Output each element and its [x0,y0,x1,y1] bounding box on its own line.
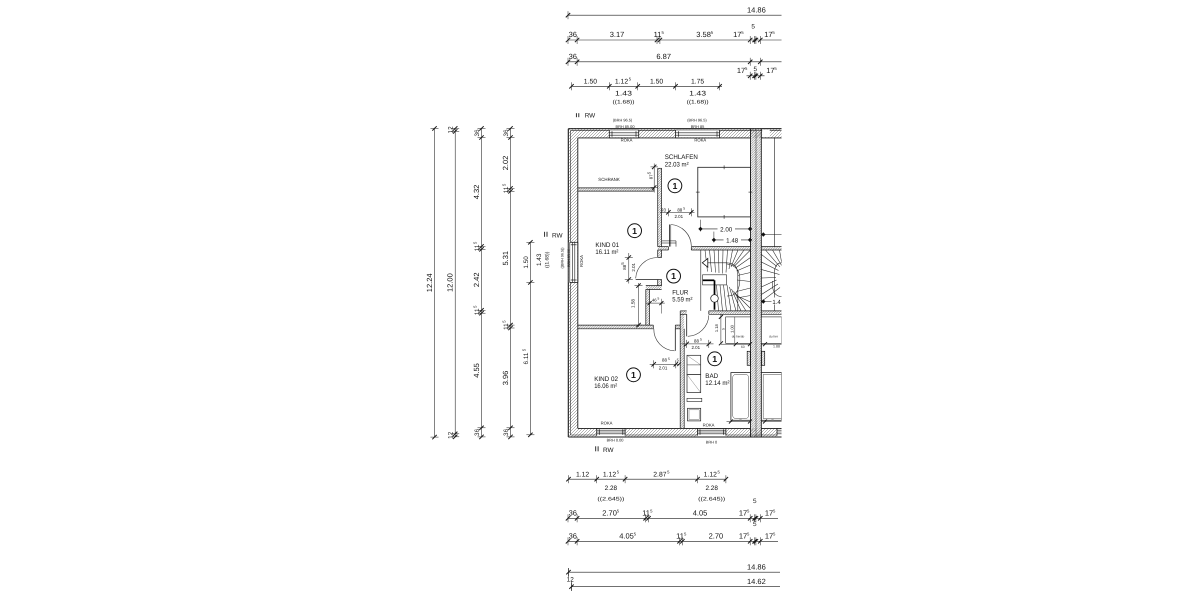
svg-text:6.11: 6.11 [523,352,530,364]
dim chain left rooms-b [510,128,512,437]
svg-text:1.43: 1.43 [689,91,706,98]
svg-text:17: 17 [765,509,773,518]
svg-text:16.11 m²: 16.11 m² [595,249,619,256]
dim 2.00 SCHLAFEN [700,220,702,232]
svg-text:1.18: 1.18 [714,324,719,333]
svg-text:((1.68)): ((1.68)) [687,100,709,106]
closet dim 87.5 [653,164,655,193]
dim chain bottom lineA windows [569,478,726,480]
svg-text:17: 17 [733,30,741,39]
dim chain left window 1.50/6.115 [529,242,531,434]
washbasin BAD [687,355,701,374]
svg-text:5: 5 [668,357,670,361]
dim 1.48 SCHLAFEN [713,232,715,243]
interior wall KIND01/FLUR vertical [658,250,662,258]
interior wall unit2 stair-bottom mirrored [761,311,781,314]
dim chain top line1 14.86 [568,14,782,16]
svg-text:2.70: 2.70 [709,532,724,541]
window bottom-2 BAD [698,429,726,437]
svg-text:12.00: 12.00 [446,273,455,292]
window top-2 SCHLAFEN [676,129,720,137]
svg-text:5: 5 [753,498,757,505]
stair walk line + arrow unit1 [708,263,738,311]
svg-text:KIND 02: KIND 02 [594,376,618,383]
circle 1 KIND02 [627,368,641,382]
svg-text:2.01: 2.01 [631,262,636,271]
wc BAD [688,408,701,421]
window top-1 SCHLAFEN [609,129,638,137]
svg-text:11: 11 [474,244,481,251]
svg-text:1: 1 [672,181,677,191]
dim chain bottom lineE 14.62 [572,586,781,588]
svg-text:3.96: 3.96 [501,371,510,386]
svg-text:du herab: du herab [732,334,745,338]
svg-text:2.28: 2.28 [605,485,618,492]
svg-text:36: 36 [503,129,510,137]
svg-text:SCHLAFEN: SCHLAFEN [665,154,698,161]
dim unit2 stairs 1.4x [761,301,781,303]
dim door KIND02 88.5/2.01 [650,363,679,365]
dim chain bottom lineC [568,540,778,542]
svg-text:1.58: 1.58 [631,299,636,308]
dim ticks tub bottom unit1 [727,421,751,423]
svg-text:36: 36 [503,428,510,436]
svg-text:5: 5 [754,66,758,73]
dim door KIND01 88.5/2.01 rotated [628,253,630,284]
svg-text:3.58: 3.58 [696,30,711,39]
svg-text:(BRH 96.5): (BRH 96.5) [613,117,633,122]
svg-text:1: 1 [632,226,637,236]
dim chain bottom lineD 14.86 [569,571,781,573]
dim chain top line4 windows [572,85,723,87]
label RW top [575,113,577,117]
door SCHLAFEN [668,225,670,247]
svg-text:17: 17 [764,30,772,39]
svg-text:BRH 0.00: BRH 0.00 [607,438,625,443]
svg-text:11: 11 [676,532,684,541]
svg-text:14.86: 14.86 [747,562,766,571]
svg-text:ROKA: ROKA [601,421,613,426]
interior wall closet vertical [658,168,662,246]
stairs unit2 mirrored (clipped) [761,255,777,267]
svg-text:36: 36 [569,52,577,61]
svg-text:RW: RW [603,447,614,454]
circle 1 FLUR [667,269,681,283]
svg-text:1.50: 1.50 [650,79,663,86]
svg-text:((BRH 96.5)): ((BRH 96.5)) [561,248,565,269]
svg-text:88: 88 [677,207,682,212]
stair newel circle [711,295,719,303]
interior wall SCHLAFEN-door / stair top [658,247,669,250]
dim chain left 12.00 [454,128,456,436]
svg-text:ROKA: ROKA [694,138,706,143]
stair handrail curve unit1 [727,264,740,296]
svg-text:1.12: 1.12 [615,79,628,86]
dim door BAD 88.5/2.01 [682,343,714,345]
svg-text:RW: RW [552,232,563,239]
svg-text:12: 12 [567,576,575,583]
svg-text:BRH 0: BRH 0 [706,439,718,444]
interior wall KIND01/KIND02 [578,325,654,329]
svg-text:12.24: 12.24 [425,273,434,292]
interior wall KIND02/BAD vertical [680,314,684,428]
interior wall FLUR/BAD horizontal [680,311,687,314]
interior wall SCHRANK/KIND01 [578,188,654,191]
svg-text:BRH 85: BRH 85 [691,124,705,129]
svg-text:4.05: 4.05 [693,509,708,518]
svg-text:5: 5 [683,207,685,211]
svg-text:12: 12 [448,431,455,439]
svg-text:1.75: 1.75 [691,79,704,86]
svg-text:4.32: 4.32 [472,185,481,200]
dim door SCHLAFEN 93/88.5/2.01 [660,211,695,213]
svg-text:17: 17 [739,532,747,541]
svg-text:2.42: 2.42 [472,272,481,287]
svg-text:36: 36 [569,30,577,39]
svg-text:17: 17 [739,509,747,518]
svg-text:1: 1 [631,370,636,380]
door BAD [686,314,688,336]
svg-text:2.02: 2.02 [501,156,510,171]
door KIND02 [674,329,676,351]
svg-text:1.50: 1.50 [584,79,597,86]
svg-text:22.03 m²: 22.03 m² [665,161,690,168]
svg-text:5.59 m²: 5.59 m² [672,297,693,304]
svg-text:36: 36 [569,509,577,518]
svg-text:FLUR: FLUR [672,290,688,297]
svg-text:ROKA: ROKA [703,423,715,428]
svg-text:6.87: 6.87 [656,52,671,61]
svg-text:46: 46 [652,297,657,302]
svg-text:ROKA: ROKA [621,138,633,143]
svg-text:1: 1 [712,354,717,364]
svg-text:88: 88 [694,338,699,343]
svg-text:1: 1 [671,271,676,281]
interior wall FLUR jog vertical [646,289,650,325]
outer wall top (hatched) [568,129,781,138]
svg-text:1.12: 1.12 [704,471,717,478]
svg-text:(BRH 96.5): (BRH 96.5) [687,117,707,122]
bathtub BAD unit1 [731,373,751,421]
svg-text:((1.68)): ((1.68)) [613,100,635,106]
svg-text:RW: RW [585,112,596,119]
svg-text:12.14 m²: 12.14 m² [705,380,730,387]
svg-text:5: 5 [722,328,726,330]
interior wall unit2 stair-top mirrored [761,247,781,250]
svg-text:11: 11 [474,308,481,315]
label RW bottom [595,446,597,451]
outer wall left (hatched) [568,129,578,437]
svg-text:1.88: 1.88 [773,344,780,348]
window bottom-1 KIND02 [597,429,625,437]
svg-text:36: 36 [569,532,577,541]
shelf BAD [687,398,702,401]
top wall chimney gap unit2 [762,129,770,137]
svg-text:5: 5 [658,297,660,301]
svg-text:2.01: 2.01 [675,214,684,219]
duct box unit2 mirrored [761,317,781,343]
svg-text:93: 93 [661,208,666,213]
radiator unit1 [747,351,750,365]
dim nook 46.5 [646,302,665,304]
svg-text:11: 11 [654,30,662,39]
label RW left [544,232,546,237]
svg-text:2.87: 2.87 [653,471,666,478]
svg-text:1.50: 1.50 [523,256,530,269]
dim ticks tub bottom unit2 [762,421,782,423]
svg-text:4.05: 4.05 [619,532,634,541]
party wall (double, hatched) [751,129,762,437]
svg-text:1.12: 1.12 [603,471,616,478]
dim 1.58 KIND01 rotated [638,283,640,327]
svg-text:36: 36 [474,129,481,137]
svg-text:17: 17 [765,532,773,541]
svg-text:1.43: 1.43 [615,91,632,98]
interior wall KIND02-door jamb [675,325,680,329]
svg-text:11: 11 [642,509,650,518]
dim chain left 12.24 [434,128,436,437]
stair treads unit1 lower flight [717,285,719,311]
svg-text:SCHRANK: SCHRANK [598,177,620,182]
svg-text:BRH 85.00: BRH 85.00 [615,124,635,129]
circle 1 BAD [708,352,722,366]
svg-text:17: 17 [766,66,774,75]
svg-text:5: 5 [700,338,702,342]
svg-text:((2.645)): ((2.645)) [597,496,624,502]
dim chain top line2 [568,39,782,41]
window bottom-3 unit2 clipped [777,429,782,437]
circle 1 KIND01 [628,224,642,238]
svg-text:88: 88 [662,358,667,363]
svg-text:1.48: 1.48 [726,238,739,245]
stair well unit1 [700,250,702,311]
svg-text:14.62: 14.62 [747,577,766,586]
dims BAD unit2 small mirrored [761,343,781,345]
svg-text:du her: du her [769,334,779,338]
svg-text:2.70: 2.70 [602,509,617,518]
window left KIND01 [569,242,578,282]
svg-text:2.00: 2.00 [720,227,733,234]
svg-text:3.17: 3.17 [610,30,625,39]
dim chain bottom lineB [568,517,778,519]
svg-text:1.4: 1.4 [772,299,781,306]
radiator unit2 [762,351,765,365]
svg-text:12: 12 [448,126,455,134]
svg-text:2.28: 2.28 [705,485,718,492]
bathtub BAD unit2 mirrored [761,373,781,421]
svg-text:11: 11 [503,186,510,193]
svg-text:1.00: 1.00 [730,324,735,333]
dim chain top line3 [568,61,782,63]
dims BAD interior small [720,314,722,344]
svg-text:BAD: BAD [705,373,718,380]
door niche lines SCHLAFEN [662,240,676,242]
svg-text:1.12: 1.12 [576,471,589,478]
dim chain left rooms-a [481,128,483,437]
duct box BAD [726,317,751,343]
svg-text:BRH 85.00: BRH 85.00 [567,249,571,267]
svg-text:36: 36 [474,428,481,436]
dim mirrored unit2 [762,234,782,236]
circle 1 SCHLAFEN [668,179,682,193]
svg-text:((1.68)): ((1.68)) [545,251,551,268]
stair landing unit1 [703,275,727,285]
svg-text:5: 5 [751,24,755,31]
svg-text:4.55: 4.55 [472,363,481,378]
door KIND01 [636,279,658,281]
bed SCHLAFEN [698,167,751,217]
unit2 wall line [773,138,775,247]
svg-text:11: 11 [503,323,510,330]
svg-text:ROKA: ROKA [579,255,584,267]
svg-text:2.01: 2.01 [659,366,668,371]
svg-text:5: 5 [753,521,757,528]
svg-text:16.06 m²: 16.06 m² [594,383,618,390]
svg-text:2.01: 2.01 [692,345,701,350]
svg-text:60: 60 [741,345,745,349]
interior wall FLUR jog horizontal [646,286,662,290]
svg-text:((2.645)): ((2.645)) [698,496,725,502]
svg-text:17: 17 [737,66,745,75]
svg-text:1.43: 1.43 [536,253,543,266]
svg-text:5.31: 5.31 [501,251,510,266]
svg-text:KIND 01: KIND 01 [595,242,619,249]
svg-text:14.86: 14.86 [747,5,766,14]
outer wall bottom (hatched) [568,428,781,437]
